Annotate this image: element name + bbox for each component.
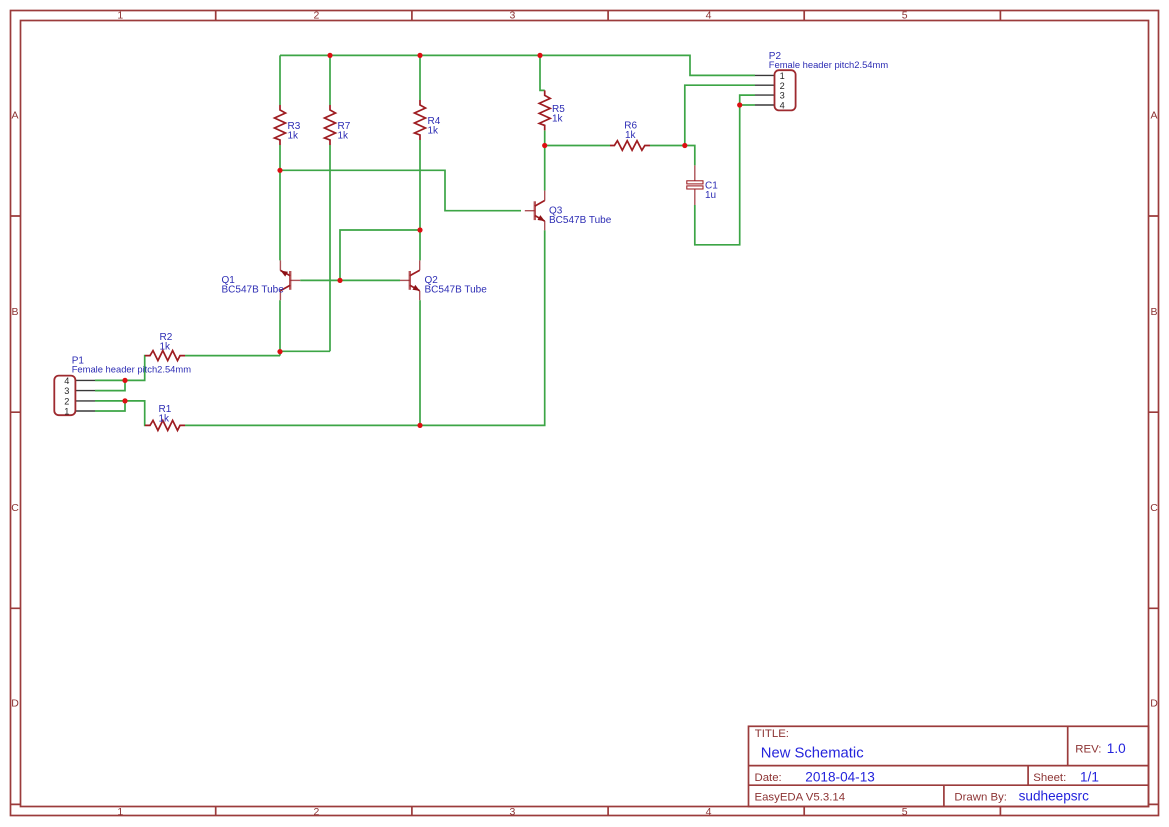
svg-text:A: A <box>1150 110 1157 122</box>
junction node R3 mid bus <box>277 168 282 173</box>
svg-text:Sheet:: Sheet: <box>1033 772 1066 784</box>
transistor Q3 <box>525 191 545 231</box>
svg-text:1: 1 <box>117 9 123 21</box>
connector P1 <box>54 376 95 417</box>
svg-text:4: 4 <box>706 9 712 21</box>
svg-text:5: 5 <box>902 9 908 21</box>
junction node R5 R6 <box>542 143 547 148</box>
svg-text:2018-04-13: 2018-04-13 <box>805 769 875 784</box>
svg-text:4: 4 <box>64 376 69 386</box>
svg-text:2: 2 <box>313 9 319 21</box>
svg-text:EasyEDA V5.3.14: EasyEDA V5.3.14 <box>755 791 846 803</box>
resistor R3 <box>275 105 286 145</box>
svg-text:BC547B Tube: BC547B Tube <box>549 215 612 226</box>
svg-text:sudheepsrc: sudheepsrc <box>1019 789 1089 804</box>
wire C1 bottom loop to P2 pin3/4 <box>695 95 755 245</box>
junction node P1 pin3 pin4 <box>122 378 127 383</box>
svg-text:4: 4 <box>780 101 785 111</box>
svg-text:BC547B Tube: BC547B Tube <box>425 285 488 296</box>
junction node P2 pin3 pin4 <box>737 102 742 107</box>
svg-text:B: B <box>1150 306 1157 318</box>
resistor R6 <box>610 141 650 151</box>
svg-text:3: 3 <box>780 91 785 101</box>
wire R4 top lead <box>419 55 421 100</box>
resistor R7 <box>325 105 336 145</box>
wire P1 pin1 up to node <box>95 401 125 411</box>
svg-text:C: C <box>11 502 19 514</box>
svg-text:1k: 1k <box>160 341 172 352</box>
capacitor C1 <box>687 165 703 205</box>
svg-text:1k: 1k <box>159 414 171 425</box>
wire node jog to C1 top <box>685 146 695 166</box>
wire junction to R7 line <box>280 350 330 352</box>
junction node bottom bus Q2 emitter <box>417 423 422 428</box>
wire VCC top bus <box>280 55 755 75</box>
wire R4 bottom to Q2 collector <box>419 140 421 260</box>
svg-text:BC547B Tube: BC547B Tube <box>222 285 285 296</box>
wire bottom bus R1 to Q3 emitter <box>185 230 545 425</box>
junction node P1 pin1 pin2 <box>122 398 127 403</box>
svg-text:1: 1 <box>64 406 69 416</box>
wire Q1 base to Q2 base <box>300 279 400 281</box>
wire Q3 collector up <box>544 146 546 191</box>
resistor R4 <box>415 100 426 140</box>
svg-text:2: 2 <box>780 81 785 91</box>
svg-text:1: 1 <box>780 71 785 81</box>
svg-text:1k: 1k <box>338 131 350 142</box>
wire P1 pin4 to R2 <box>95 356 145 381</box>
title block (decorative) <box>749 726 1149 806</box>
wire P2 pin4 stub link <box>740 104 755 106</box>
wire R7 top lead <box>329 55 331 105</box>
svg-text:A: A <box>11 110 18 122</box>
resistor R2 <box>145 351 185 361</box>
wire R2 to junction <box>185 355 280 357</box>
junction node R2 Q1 collector <box>277 349 282 354</box>
svg-text:1k: 1k <box>428 126 440 137</box>
wire R5 bottom to node <box>544 131 546 146</box>
svg-text:1k: 1k <box>625 130 637 141</box>
wire P2 pin2 down to node <box>685 85 755 145</box>
wire node to R6 left <box>545 145 610 147</box>
svg-text:D: D <box>11 698 19 710</box>
svg-text:TITLE:: TITLE: <box>755 728 789 740</box>
wire Q1 collector down <box>279 300 281 355</box>
svg-text:2: 2 <box>313 806 319 818</box>
svg-text:3: 3 <box>64 386 69 396</box>
svg-text:3: 3 <box>509 9 515 21</box>
svg-text:1u: 1u <box>705 190 716 201</box>
svg-text:1k: 1k <box>288 131 300 142</box>
wire P1 pin2 to R1 <box>95 401 145 426</box>
svg-text:New Schematic: New Schematic <box>761 745 864 761</box>
connector P2 <box>755 70 796 110</box>
svg-text:5: 5 <box>902 806 908 818</box>
wire R5 top lead with jog <box>540 55 545 90</box>
wire mid bus R3 to Q3 base <box>280 170 521 210</box>
svg-text:D: D <box>1150 698 1158 710</box>
junction node R4 line y230 <box>417 227 422 232</box>
svg-text:1.0: 1.0 <box>1107 741 1126 756</box>
wire R3 bottom to node <box>279 145 281 170</box>
svg-text:1/1: 1/1 <box>1080 769 1099 784</box>
resistor R5 <box>539 90 550 130</box>
junction node top bus R4 <box>417 53 422 58</box>
transistor Q2 <box>400 260 420 300</box>
resistor R1 <box>145 420 185 430</box>
junction node base wire <box>337 278 342 283</box>
junction node top bus R7 <box>327 53 332 58</box>
svg-text:REV:: REV: <box>1075 743 1101 755</box>
svg-text:Date:: Date: <box>755 772 782 784</box>
wire R6 right to node <box>650 145 685 147</box>
transistor Q1 <box>280 260 300 300</box>
wire R3 top lead <box>279 55 281 105</box>
svg-text:C: C <box>1150 502 1158 514</box>
junction node top bus R5 <box>537 53 542 58</box>
wire R7 bottom long vertical <box>329 145 331 351</box>
svg-text:1k: 1k <box>552 114 564 125</box>
svg-text:1: 1 <box>117 806 123 818</box>
wire Q2 emitter down to bottom bus <box>419 300 421 425</box>
junction node R6 C1 P2pin2 <box>682 143 687 148</box>
svg-text:3: 3 <box>509 806 515 818</box>
svg-text:Female header pitch2.54mm: Female header pitch2.54mm <box>769 59 889 70</box>
wire P1 pin3 up to node <box>95 380 125 390</box>
svg-text:Drawn By:: Drawn By: <box>954 791 1007 803</box>
svg-text:Female header pitch2.54mm: Female header pitch2.54mm <box>72 364 192 375</box>
svg-text:4: 4 <box>706 806 712 818</box>
svg-text:B: B <box>11 306 18 318</box>
wire base node up and over to R4 line <box>340 230 420 280</box>
svg-text:2: 2 <box>64 397 69 407</box>
wire node to Q1 emitter <box>279 170 281 260</box>
